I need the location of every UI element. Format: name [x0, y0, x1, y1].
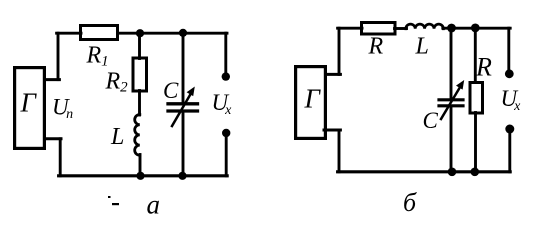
wire right column lower (right circuit) — [508, 129, 511, 172]
wire left bottom vertical (right circuit) — [338, 130, 341, 172]
svg-text:L: L — [415, 34, 429, 60]
wire top rail inductor to corner — [443, 27, 510, 30]
inductor L (right circuit coil) — [406, 24, 444, 29]
svg-text:Uп: Uп — [52, 95, 73, 123]
wire C branch lower (right) — [450, 106, 453, 172]
wire node1 to R2 — [138, 33, 141, 58]
svg-text:Г: Г — [20, 88, 38, 118]
junction node 2 (C branch, top) — [179, 29, 187, 37]
wire node2 to capacitor — [182, 33, 185, 104]
wire R to inductor (right) — [395, 27, 407, 30]
wire gen bottom stub — [45, 137, 61, 140]
capacitor C top plate (right) — [439, 98, 463, 101]
capacitor arrow (variable) — [172, 93, 192, 127]
generator G2 box — [296, 67, 326, 139]
wire right column lower (to bottom rail) — [225, 133, 228, 176]
svg-text:C: C — [423, 108, 439, 133]
wire top rail to R (right) — [338, 27, 362, 30]
capacitor arrow (right, variable) — [441, 86, 461, 119]
inductor L (left circuit coil) — [135, 115, 140, 156]
junction dot bottom of C branch — [178, 172, 186, 180]
svg-text:б: б — [403, 188, 417, 217]
bottom rail (left circuit) — [59, 174, 228, 177]
speckle marks near caption a — [108, 196, 111, 198]
wire top rail R1 to corner — [118, 32, 228, 35]
svg-text:R2: R2 — [105, 69, 129, 96]
bottom rail (right circuit) — [338, 170, 511, 173]
wire R branch upper (right) — [474, 28, 477, 83]
terminal dot top (right circuit) — [505, 69, 514, 78]
resistor R2 — [133, 58, 147, 91]
svg-text:R: R — [368, 34, 384, 60]
wire capacitor to bottom rail — [182, 111, 185, 176]
capacitor C top plate — [168, 102, 198, 105]
generator G1 box — [15, 68, 45, 149]
wire left vertical up (right circuit) — [338, 28, 341, 74]
svg-text:Ux: Ux — [501, 86, 522, 114]
junction dot bottom R branch (right) — [471, 168, 480, 177]
svg-text:C: C — [163, 78, 179, 103]
svg-text:L: L — [110, 124, 124, 150]
junction dot bottom C branch (right) — [448, 168, 457, 177]
wire gen bottom stub (right) — [324, 129, 340, 132]
terminal dot bottom (left circuit) — [222, 129, 230, 137]
capacitor C bottom plate — [168, 109, 198, 112]
junction dot bottom of L branch — [136, 172, 144, 180]
svg-text:R1: R1 — [86, 43, 109, 70]
svg-text:Ux: Ux — [212, 90, 233, 118]
wire left bottom vertical — [59, 139, 62, 176]
resistor R (shunt) — [470, 83, 483, 114]
wire right column upper (to top terminal) — [224, 33, 227, 76]
wire left vertical up — [57, 33, 60, 79]
wire right column upper (right circuit) — [507, 28, 510, 74]
junction node 1 (R2 branch, top) — [136, 29, 144, 37]
resistor R (series) — [362, 23, 396, 35]
wire C branch upper (right) — [450, 28, 453, 100]
wire top rail to R1 — [57, 32, 81, 35]
svg-text:R: R — [475, 53, 492, 82]
wire R2 to inductor — [138, 91, 141, 116]
terminal dot top (left circuit) — [222, 72, 230, 80]
resistor R1 — [81, 26, 118, 40]
terminal dot bottom (right circuit) — [505, 125, 514, 134]
wire R branch lower (right) — [474, 113, 477, 172]
junction node R branch (top right) — [471, 24, 480, 33]
wire gen top stub (right) — [326, 73, 340, 76]
wire inductor to bottom rail — [139, 155, 142, 176]
svg-text:а: а — [147, 190, 161, 220]
svg-text:Г: Г — [304, 84, 322, 114]
junction node C branch (top right) — [447, 24, 456, 33]
wire gen top stub — [45, 78, 59, 81]
capacitor C bottom plate (right) — [439, 104, 463, 107]
